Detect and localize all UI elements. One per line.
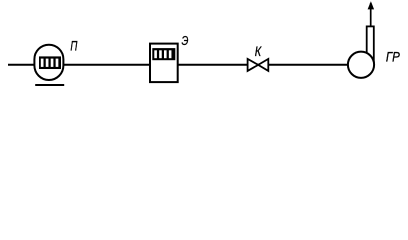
svg-text:Э: Э <box>182 33 189 48</box>
gas meter P1 capsule body <box>34 45 63 80</box>
vent GR body circle <box>348 52 374 78</box>
vent stack GR riser rect <box>367 26 374 62</box>
gas meter P1 base line <box>35 84 64 86</box>
wire main gas pipe <box>8 64 348 66</box>
vent GR arrow shaft <box>370 3 372 26</box>
regulator E1 counter digits <box>154 50 171 58</box>
svg-text:К: К <box>255 44 262 59</box>
valve K1 bowtie <box>248 59 269 71</box>
vent GR arrow head <box>368 1 375 9</box>
regulator E1 body rect <box>150 44 178 83</box>
svg-text:П: П <box>70 38 78 54</box>
gas meter P1 counter digits <box>41 59 59 67</box>
gas meter P1 counter window <box>39 56 61 69</box>
regulator E1 counter window <box>152 48 175 60</box>
svg-text:ГР: ГР <box>386 49 400 65</box>
